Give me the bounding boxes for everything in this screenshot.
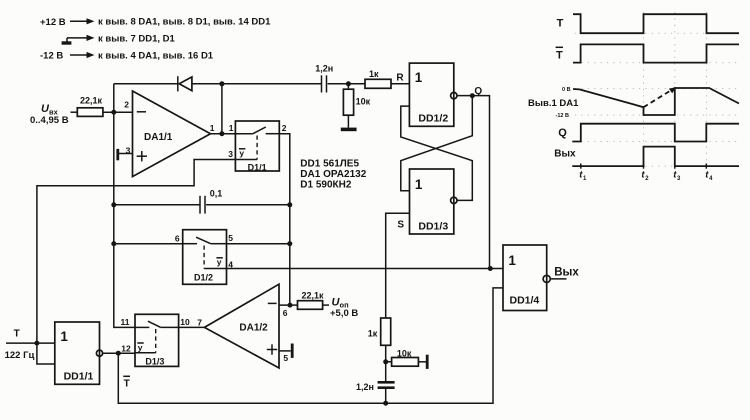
node dot rail-D1/2 pin6 — [111, 241, 116, 246]
wire S input — [386, 213, 410, 318]
svg-text:10к: 10к — [356, 97, 371, 107]
resistor 1k (to R input) — [365, 69, 391, 88]
wire DA1/2 pin6 — [279, 304, 298, 306]
resistor 22,1k (reference) — [298, 291, 330, 310]
svg-text:DA1 OPA2132: DA1 OPA2132 — [300, 169, 366, 180]
wire R1 to op-amp pin 2 — [103, 111, 133, 113]
svg-text:1: 1 — [210, 123, 215, 133]
svg-text:22,1к: 22,1к — [80, 96, 103, 106]
diode VD1 — [178, 76, 192, 91]
node Tbar label — [123, 376, 130, 389]
node Uop label — [330, 296, 358, 319]
wire D1/1 pin3 control from T — [37, 160, 236, 344]
node dot pin6 junction — [288, 303, 293, 308]
node dot 1k/10k junction — [383, 359, 388, 364]
wire feedback vertical — [221, 84, 223, 134]
svg-text:+5,0 В: +5,0 В — [330, 308, 358, 319]
resistor 1k (lower) — [368, 318, 391, 345]
resistor 22,1k (input) — [77, 96, 103, 117]
wire D1/1 pin2 to right rail — [279, 134, 290, 305]
svg-text:T: T — [14, 329, 20, 340]
wire DA1/2 output pin7 to D1/3 pin10 — [179, 326, 205, 328]
node Q junction dot — [470, 93, 475, 98]
ground (common) symbol of power annotation — [62, 33, 176, 44]
svg-text:5: 5 — [228, 233, 233, 243]
waveform Tbar — [556, 44, 739, 62]
svg-text:2: 2 — [124, 100, 129, 110]
svg-text:0 В: 0 В — [562, 87, 571, 93]
waveform Vyv.1 DA1 — [528, 87, 739, 119]
svg-text:DA1/1: DA1/1 — [144, 132, 173, 143]
capacitor 0,1 — [114, 188, 290, 213]
svg-text:DA1/2: DA1/2 — [239, 323, 268, 334]
svg-text:0..4,95 В: 0..4,95 В — [30, 115, 69, 126]
node dot rail-cap 0,1 — [111, 202, 116, 207]
svg-text:Вых: Вых — [554, 149, 576, 160]
wire cross-coupling Q to DD1/3 input2 — [401, 96, 473, 191]
common bar at DA1/2 pin 5 — [279, 344, 294, 358]
parts list text — [300, 158, 366, 190]
node dot feedback/output junction — [219, 81, 224, 86]
wire cap to 1k — [328, 83, 365, 85]
svg-text:1: 1 — [508, 253, 516, 268]
svg-text:R: R — [396, 72, 404, 83]
svg-text:6: 6 — [283, 308, 288, 318]
svg-text:D1/1: D1/1 — [248, 162, 267, 172]
svg-text:1: 1 — [415, 177, 423, 192]
svg-text:+12 В: +12 В — [40, 17, 66, 28]
svg-text:1,2н: 1,2н — [315, 63, 333, 73]
svg-text:DD1 561ЛЕ5: DD1 561ЛЕ5 — [300, 158, 359, 169]
svg-text:DD1/3: DD1/3 — [418, 220, 448, 232]
svg-text:-12 В: -12 В — [40, 51, 63, 62]
svg-text:0,1: 0,1 — [210, 188, 223, 198]
wire DA1/1 output to D1/1 — [211, 133, 236, 135]
common bar at DA1/1 pin 3 — [116, 149, 132, 160]
wire top feedback segment left — [114, 83, 178, 85]
svg-text:T: T — [557, 17, 564, 29]
waveform T — [557, 14, 739, 33]
svg-text:DD1/2: DD1/2 — [418, 113, 448, 125]
node dot Tbar junction — [116, 351, 121, 356]
NOR gate DD1/2 — [396, 63, 457, 126]
node t4 label — [705, 169, 713, 182]
svg-text:Вых: Вых — [554, 267, 579, 279]
svg-text:22,1к: 22,1к — [302, 291, 325, 301]
svg-text:1: 1 — [60, 329, 68, 344]
wire 1k to cap — [385, 345, 387, 381]
svg-text:Выв.1 DA1: Выв.1 DA1 — [528, 98, 579, 109]
svg-text:D1/3: D1/3 — [145, 357, 164, 367]
svg-text:Q: Q — [474, 86, 482, 97]
wire D1/2 pin4 control to Q / DD1-4 — [227, 268, 504, 270]
analog switch D1/3 — [121, 314, 191, 366]
svg-text:11: 11 — [121, 317, 130, 327]
svg-text:к выв. 7 DD1, D1: к выв. 7 DD1, D1 — [98, 33, 176, 44]
svg-text:Q: Q — [558, 127, 567, 139]
svg-text:DD1/1: DD1/1 — [64, 371, 94, 383]
time axis ticks — [581, 164, 707, 169]
wire Uvx to R1 — [71, 111, 78, 113]
svg-text:-12 В: -12 В — [556, 113, 569, 119]
node summing junction dot — [111, 110, 116, 115]
node t2 label — [641, 169, 649, 182]
wire DD1/1 input2 tie — [37, 343, 55, 364]
svg-text:y: y — [138, 342, 143, 352]
NOR gate DD1/3 — [397, 169, 457, 234]
svg-text:S: S — [397, 220, 404, 231]
wire T input — [6, 342, 55, 344]
power rail -12V annotation — [40, 50, 214, 61]
NOR gate DD1/4 — [503, 245, 550, 311]
analog switch D1/1 — [228, 121, 287, 172]
timing diagram grid dotted horizontals — [575, 33, 739, 166]
node dot output junction — [219, 131, 224, 136]
node dot T junction — [34, 341, 39, 346]
svg-text:3: 3 — [228, 149, 233, 159]
timing diagram grid dotted verticals — [644, 12, 707, 168]
svg-text:D1 590КН2: D1 590КН2 — [300, 179, 352, 190]
power rail +12V annotation — [40, 17, 271, 28]
svg-text:к выв. 8 DA1, выв. 8 D1, выв: к выв. 8 DA1, выв. 8 D1, выв. 14 DD1 — [98, 17, 271, 28]
node Uvx input label — [30, 103, 69, 126]
svg-text:D1/2: D1/2 — [194, 273, 213, 283]
svg-text:1к: 1к — [368, 328, 378, 338]
svg-text:T: T — [556, 50, 563, 62]
wire DD1/2 input2 from cross-coupling — [401, 106, 473, 200]
svg-text:1,2н: 1,2н — [356, 382, 374, 392]
node dot pin4 wire / Q vertical — [488, 266, 493, 271]
wire D1/2 pin5 to right rail — [227, 243, 290, 245]
node dot right rail-D1/2 pin5 — [287, 241, 292, 246]
node dot cap/10k/1k junction — [346, 81, 351, 86]
waveform Vyh — [554, 147, 739, 167]
capacitor 1,2n (top) — [315, 63, 333, 92]
wire DD1/4 output — [550, 278, 566, 280]
svg-text:7: 7 — [197, 317, 202, 327]
svg-text:DD1/4: DD1/4 — [510, 295, 540, 307]
node T input label — [5, 329, 35, 362]
svg-text:1: 1 — [229, 123, 234, 133]
wire 1k to R input — [391, 83, 409, 85]
node t3 label — [673, 169, 681, 182]
wire DD1/1 output to D1/3 pin12 — [103, 352, 136, 354]
op-amp DA1/2 — [197, 284, 288, 368]
svg-text:к выв. 4 DA1, выв. 16 D1: к выв. 4 DA1, выв. 16 D1 — [98, 50, 214, 61]
svg-text:1: 1 — [415, 70, 423, 85]
wire Tbar bottom rail — [118, 288, 503, 403]
svg-text:12: 12 — [121, 344, 131, 354]
node dot right rail-cap — [287, 202, 292, 207]
wire left summing rail — [114, 84, 135, 328]
svg-text:10к: 10к — [397, 348, 412, 358]
wire Q output of DD1/2 — [457, 96, 490, 269]
node t1 label — [579, 169, 587, 182]
svg-text:1к: 1к — [369, 69, 379, 79]
svg-text:5: 5 — [283, 353, 288, 363]
svg-text:6: 6 — [175, 233, 180, 243]
svg-text:122 Гц: 122 Гц — [5, 350, 35, 361]
node dot cap to bottom rail — [383, 401, 388, 406]
ground bar under 10k — [341, 115, 357, 131]
analog switch D1/2 — [114, 230, 234, 285]
resistor 10k (lower, to common) — [386, 348, 429, 369]
svg-text:2: 2 — [282, 123, 287, 133]
capacitor 1,2n (lower) — [356, 381, 395, 403]
resistor 10k (top, to ground) — [343, 84, 370, 115]
op-amp DA1/1 — [124, 91, 215, 177]
wire top feedback segment right — [192, 83, 321, 85]
svg-text:T: T — [124, 379, 130, 390]
waveform Q — [558, 124, 739, 142]
svg-text:10: 10 — [180, 317, 190, 327]
NOR gate DD1/1 (inverter) — [55, 322, 103, 384]
